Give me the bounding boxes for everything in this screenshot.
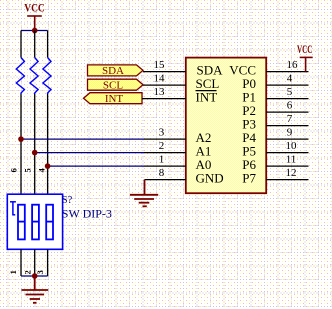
- resistor R? (right) pin leads: [47, 31, 49, 195]
- svg-text:P7: P7: [242, 171, 256, 186]
- IC U? body: [186, 58, 266, 194]
- svg-text:SCL: SCL: [103, 79, 123, 91]
- junction on A1 wire: [32, 150, 38, 156]
- DIP switch actuator T mark: [10, 202, 16, 216]
- wire A2 net: [21, 138, 144, 140]
- svg-text:VCC: VCC: [297, 44, 313, 56]
- DIP bottom pin 2: [34, 249, 36, 276]
- svg-text:2: 2: [22, 270, 32, 274]
- svg-text:S?: S?: [62, 195, 73, 206]
- INT overline: [196, 90, 217, 92]
- svg-text:VCC: VCC: [24, 1, 45, 15]
- svg-text:3: 3: [159, 127, 165, 139]
- junction dot bottom: [32, 273, 38, 279]
- DIP slider 3: [46, 205, 53, 240]
- resistor R? (right) body: [43, 58, 51, 95]
- ground symbol below DIP: [21, 276, 48, 303]
- wire top horizontal bus: [21, 30, 48, 32]
- DIP switch S? box: [7, 194, 62, 249]
- svg-text:6: 6: [287, 100, 293, 112]
- svg-text:2: 2: [159, 140, 165, 152]
- svg-text:1: 1: [159, 154, 165, 166]
- DIP slider 2: [32, 205, 39, 240]
- resistor R? (left) body: [16, 58, 24, 95]
- svg-text:SW DIP-3: SW DIP-3: [62, 207, 112, 221]
- left pin numbers 15 14 13 3 2 1 8: [154, 59, 166, 179]
- svg-text:15: 15: [154, 59, 166, 71]
- DIP bottom pin 1: [20, 249, 22, 276]
- resistor R? (middle) body: [30, 58, 38, 95]
- svg-text:11: 11: [286, 154, 297, 166]
- power port VCC (right): [300, 57, 313, 71]
- svg-text:5: 5: [287, 86, 293, 98]
- resistor R? (middle) pin leads: [34, 31, 36, 195]
- svg-text:9: 9: [287, 127, 293, 139]
- svg-text:SDA: SDA: [102, 65, 124, 77]
- svg-text:5: 5: [23, 168, 33, 172]
- wire bottom bus: [21, 275, 48, 277]
- svg-text:GND: GND: [196, 171, 224, 186]
- svg-text:13: 13: [154, 86, 166, 98]
- IC left pin names: [196, 63, 224, 186]
- resistor R? (left) pin leads: [20, 31, 22, 195]
- wire A1 net: [35, 152, 144, 154]
- svg-text:6: 6: [8, 168, 18, 172]
- junction on A0 wire: [45, 163, 51, 169]
- IC right pin stubs: VCC P0..P7: [266, 72, 308, 180]
- DIP slider 1: [18, 205, 25, 240]
- wire A0 net: [48, 165, 144, 167]
- IC right pin names: [229, 63, 256, 186]
- svg-text:INT: INT: [105, 93, 124, 105]
- port INT: [84, 93, 143, 105]
- port SDA: [88, 65, 144, 77]
- junction on A2 wire: [18, 136, 24, 142]
- power port VCC (left): [27, 16, 42, 30]
- svg-text:7: 7: [287, 113, 293, 125]
- svg-text:16: 16: [287, 59, 299, 71]
- port SCL: [88, 79, 144, 91]
- svg-text:12: 12: [286, 167, 297, 179]
- svg-text:4: 4: [287, 73, 293, 85]
- svg-text:10: 10: [286, 140, 298, 152]
- junction dot at VCC: [32, 28, 38, 34]
- svg-text:1: 1: [8, 270, 18, 274]
- IC left pin stubs: SDA SCL INT A2 A1 A0 GND: [142, 72, 186, 180]
- right pin numbers 16 4 5 6 7 9 10 11 12: [286, 59, 299, 179]
- ground symbol at IC pin 8: [130, 180, 158, 207]
- svg-text:14: 14: [154, 73, 166, 85]
- svg-text:INT: INT: [196, 90, 218, 105]
- DIP bottom pin 3: [47, 249, 49, 276]
- svg-text:8: 8: [159, 167, 165, 179]
